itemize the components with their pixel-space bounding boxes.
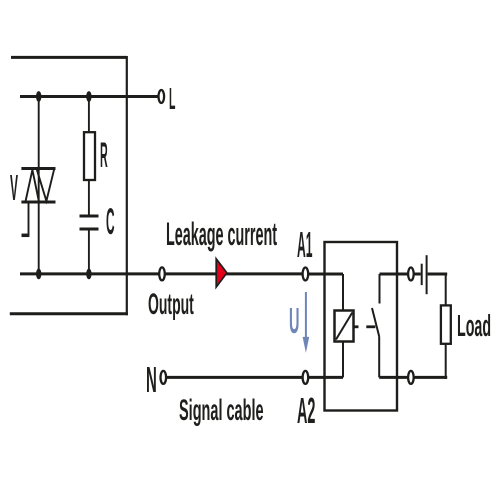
label V — [10, 167, 18, 209]
wire: surge-box right edge — [126, 56, 128, 315]
wire: bottom-right return — [379, 376, 447, 379]
terminal bottom-right — [408, 371, 414, 384]
relay coil K — [335, 311, 354, 342]
node: junction dot bottom-right — [86, 269, 91, 280]
voltage arrow U (blue) — [303, 292, 310, 353]
label A2 — [297, 390, 315, 432]
terminal Output — [159, 267, 165, 280]
label N — [146, 359, 157, 401]
label L — [169, 81, 175, 117]
resistor R — [84, 132, 95, 180]
label A1 — [297, 224, 313, 266]
wire: battery to load corner — [428, 273, 448, 276]
wire: output line (middle row) — [20, 272, 303, 275]
varistor V symbol — [21, 169, 55, 236]
label Load — [457, 308, 491, 344]
battery cell — [422, 255, 427, 294]
switch contact: fixed lead — [379, 274, 381, 304]
switch contact: lower lead — [378, 337, 380, 378]
label C — [106, 201, 115, 243]
label Signal cable — [179, 394, 264, 428]
wire: varistor branch lead — [38, 97, 40, 274]
capacitor C — [80, 216, 99, 229]
wire: L line (top row) — [20, 95, 158, 98]
terminal top-right — [408, 268, 414, 281]
terminal N — [161, 371, 167, 384]
wire: switch to battery — [380, 273, 421, 276]
wire: coil top lead — [342, 274, 344, 311]
wire: A2 into coil — [308, 376, 343, 379]
wire: R-C branch lead — [88, 97, 90, 133]
wire: C to bottom lead — [88, 231, 90, 274]
label Output — [148, 288, 194, 322]
load resistor — [441, 305, 451, 343]
node: junction dot bottom-left — [36, 269, 41, 280]
wire: coil bottom lead — [342, 342, 344, 378]
node: junction dot top-left — [36, 91, 41, 102]
wire: A1 into coil — [308, 273, 343, 276]
switch contact: blade — [372, 308, 379, 337]
label R — [100, 136, 108, 176]
terminal A2 — [303, 371, 309, 384]
node: junction dot top-right — [86, 91, 91, 102]
wire: load bottom lead — [445, 344, 447, 379]
relay box — [325, 242, 398, 411]
wire: N signal line — [167, 376, 303, 379]
wire: surge-box top edge — [11, 56, 127, 59]
wire: R to C lead — [88, 180, 90, 215]
terminal A1 — [303, 268, 309, 281]
leakage current arrow (red) — [216, 259, 227, 287]
wire: surge-box bottom edge — [10, 312, 128, 315]
label U — [289, 300, 299, 342]
label Leakage current — [166, 216, 277, 253]
wire: load top lead — [445, 273, 447, 306]
terminal L — [159, 90, 165, 103]
mechanical link dashes — [354, 325, 376, 328]
